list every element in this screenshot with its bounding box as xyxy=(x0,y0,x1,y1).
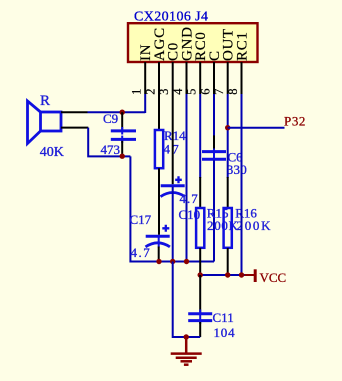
junction C9 top xyxy=(120,110,125,115)
wire pin7 to P32 junction xyxy=(227,94,229,129)
pin 8 xyxy=(241,62,243,94)
junction C9 bottom xyxy=(120,154,125,159)
capacitor C9 473 xyxy=(101,111,137,157)
svg-text:4.7: 4.7 xyxy=(180,191,199,206)
junction VCC rail pin8 xyxy=(239,272,244,277)
wire mic bottom L-shape xyxy=(88,128,130,157)
wire to P32 xyxy=(228,127,285,129)
wire ground rail drop xyxy=(173,262,201,338)
svg-text:3: 3 xyxy=(157,89,171,95)
pin 2 xyxy=(158,62,160,94)
capacitor C10 4.7 polarized xyxy=(161,94,201,262)
svg-text:8: 8 xyxy=(226,89,240,95)
pin 7 xyxy=(227,62,229,94)
wire pin8 drop to VCC rail xyxy=(241,94,243,275)
svg-text:40K: 40K xyxy=(40,145,64,160)
junction ground xyxy=(184,334,189,339)
junction P32 xyxy=(225,125,230,130)
svg-text:C9: C9 xyxy=(103,111,118,126)
mic pin bottom xyxy=(61,127,88,129)
pin 4 xyxy=(186,62,188,94)
svg-text:R: R xyxy=(40,93,50,109)
mic pin top xyxy=(61,111,88,113)
svg-text:473: 473 xyxy=(101,142,121,157)
svg-text:1: 1 xyxy=(130,89,144,95)
wire left drop to ground rail xyxy=(130,156,214,261)
VCC rail wire xyxy=(200,274,244,276)
svg-text:2: 2 xyxy=(144,89,158,95)
svg-text:P32: P32 xyxy=(284,114,306,129)
resistor R14 47 xyxy=(155,94,186,235)
wire pin4 GND drop xyxy=(186,94,188,262)
microphone R 40K xyxy=(28,101,62,144)
junction rail C10 xyxy=(170,259,175,264)
svg-text:330: 330 xyxy=(227,162,247,177)
svg-text:4.7: 4.7 xyxy=(131,245,152,260)
wire mic top to pin1 xyxy=(88,111,146,113)
wire pin1 drop xyxy=(144,94,146,113)
pin 5 xyxy=(199,62,201,94)
power VCC xyxy=(245,269,287,285)
svg-text:4: 4 xyxy=(171,88,185,95)
junction rail C17 xyxy=(156,259,161,264)
resistor R15 200K xyxy=(196,94,239,275)
svg-text:VCC: VCC xyxy=(260,270,287,285)
svg-text:104: 104 xyxy=(214,325,236,340)
svg-text:RC1: RC1 xyxy=(235,31,251,61)
resistor R16 200K xyxy=(224,128,273,275)
IC U1 CX20106 body xyxy=(128,23,258,62)
pin 6 xyxy=(213,62,215,94)
pin 1 xyxy=(144,62,146,94)
capacitor C17 4.7 polarized xyxy=(130,212,170,262)
svg-text:C11: C11 xyxy=(213,310,234,325)
svg-text:C17: C17 xyxy=(130,212,152,227)
svg-text:CX20106 J4: CX20106 J4 xyxy=(134,10,208,25)
ground xyxy=(171,337,202,365)
capacitor C6 330 xyxy=(202,94,247,262)
junction VCC rail R16 xyxy=(225,272,230,277)
capacitor C11 104 xyxy=(188,275,235,340)
svg-text:6: 6 xyxy=(199,89,213,95)
pin 3 xyxy=(172,62,174,94)
junction VCC rail R15 xyxy=(198,272,203,277)
junction rail pin4 xyxy=(184,259,189,264)
svg-text:7: 7 xyxy=(212,89,226,95)
svg-text:5: 5 xyxy=(185,89,199,95)
